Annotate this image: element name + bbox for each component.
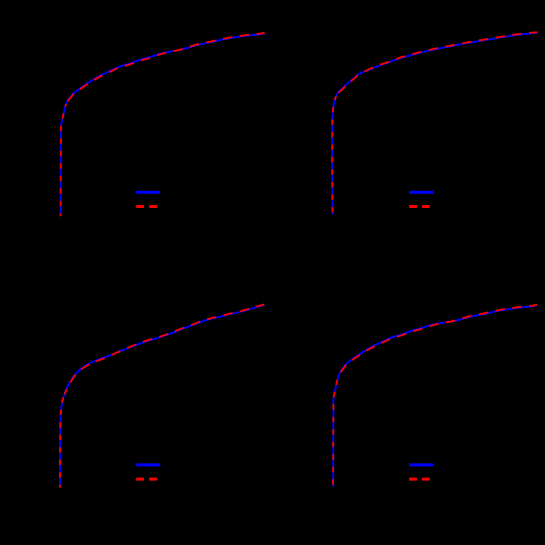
TL red dashed curve steep part [61,104,67,216]
BR blue solid curve [333,305,536,485]
TR blue solid curve [332,33,537,214]
legend top-right [409,192,433,206]
TR red dashed curve steep part [332,96,336,216]
legend bottom-right [409,465,433,479]
BR red dashed curve steep part [333,375,339,488]
TL red dashed curve flat part [66,33,264,105]
BL red dashed curve flat part [65,305,265,395]
TL blue solid curve [61,33,264,213]
TR red dashed curve flat part [336,32,537,97]
bottom-left subplot [60,305,264,488]
top-right subplot [332,32,537,216]
BL blue solid curve [60,305,264,485]
legend top-left [136,192,160,206]
bottom-right subplot [333,305,537,489]
legend bottom-left [136,465,160,479]
top-left subplot [61,33,265,217]
BL red dashed curve steep part [60,394,65,488]
BR red dashed curve flat part [339,305,537,376]
